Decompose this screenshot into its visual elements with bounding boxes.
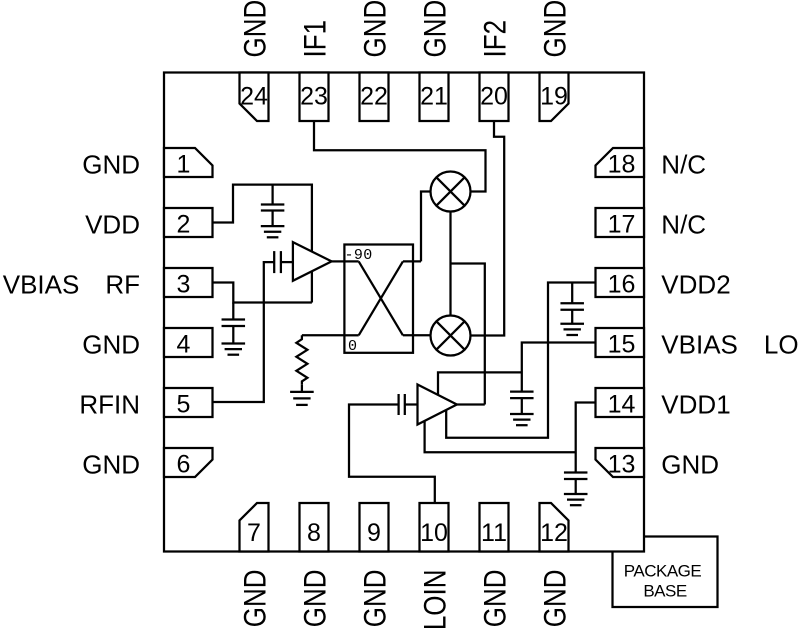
svg-text:14: 14 — [608, 391, 636, 419]
svg-text:11: 11 — [481, 519, 507, 547]
svg-text:GND: GND — [82, 330, 140, 360]
svg-text:3: 3 — [177, 271, 191, 299]
svg-text:16: 16 — [608, 271, 636, 299]
svg-text:19: 19 — [540, 82, 568, 110]
svg-text:BASE: BASE — [643, 582, 687, 601]
svg-text:21: 21 — [420, 82, 448, 110]
svg-text:LOIN: LOIN — [418, 570, 453, 631]
svg-text:8: 8 — [307, 519, 321, 547]
svg-text:9: 9 — [367, 519, 381, 547]
svg-text:-90: -90 — [345, 247, 373, 264]
svg-text:0: 0 — [348, 338, 357, 355]
svg-text:5: 5 — [177, 391, 191, 419]
svg-text:15: 15 — [608, 331, 636, 359]
svg-text:VDD2: VDD2 — [661, 270, 730, 300]
svg-text:GND: GND — [478, 570, 513, 628]
svg-text:20: 20 — [480, 82, 508, 110]
svg-text:IF1: IF1 — [298, 20, 333, 58]
svg-text:17: 17 — [608, 211, 636, 239]
svg-text:GND: GND — [238, 0, 273, 58]
svg-text:2: 2 — [177, 211, 191, 239]
svg-text:GND: GND — [82, 150, 140, 180]
svg-text:4: 4 — [177, 331, 191, 359]
svg-text:IF2: IF2 — [478, 20, 513, 58]
svg-text:GND: GND — [661, 450, 719, 480]
svg-text:VBIAS LO: VBIAS LO — [661, 330, 798, 360]
svg-text:GND: GND — [538, 570, 573, 628]
svg-text:GND: GND — [358, 0, 393, 58]
svg-text:N/C: N/C — [661, 150, 706, 180]
svg-text:1: 1 — [177, 151, 191, 179]
svg-text:GND: GND — [82, 450, 140, 480]
svg-text:VDD1: VDD1 — [661, 390, 730, 420]
svg-text:N/C: N/C — [661, 210, 706, 240]
svg-text:PACKAGE: PACKAGE — [624, 562, 702, 581]
svg-text:23: 23 — [300, 82, 328, 110]
svg-text:18: 18 — [608, 151, 636, 179]
svg-text:GND: GND — [538, 0, 573, 58]
svg-text:GND: GND — [238, 570, 273, 628]
svg-text:22: 22 — [360, 82, 388, 110]
svg-text:RFIN: RFIN — [79, 390, 140, 420]
svg-text:GND: GND — [298, 570, 333, 628]
svg-text:10: 10 — [420, 519, 448, 547]
svg-text:VDD: VDD — [85, 210, 140, 240]
svg-text:12: 12 — [540, 519, 568, 547]
svg-text:GND: GND — [358, 570, 393, 628]
svg-text:6: 6 — [177, 451, 191, 479]
svg-text:7: 7 — [247, 519, 261, 547]
svg-text:GND: GND — [418, 0, 453, 58]
svg-text:VBIAS RF: VBIAS RF — [3, 270, 140, 300]
svg-text:24: 24 — [240, 82, 268, 110]
svg-text:13: 13 — [608, 451, 636, 479]
